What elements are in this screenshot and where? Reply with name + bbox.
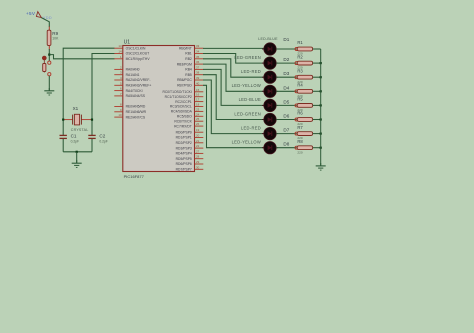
svg-text:RC5/SDO: RC5/SDO (177, 115, 192, 119)
svg-text:10: 10 (118, 113, 122, 117)
wire RB3 to D4 (203, 64, 264, 91)
label R7 (297, 125, 303, 130)
svg-text:LED-YELLOW: LED-YELLOW (232, 140, 261, 145)
svg-text:RC1/T1OSI/CCP2: RC1/T1OSI/CCP2 (165, 95, 192, 99)
svg-text:17: 17 (196, 98, 200, 102)
label D7 (283, 128, 289, 133)
power terminal +5V (36, 12, 41, 18)
svg-text:R6: R6 (297, 111, 303, 116)
wire power terminal to R9 (41, 18, 49, 27)
svg-text:LED-BLUE: LED-BLUE (258, 37, 278, 41)
svg-text:LED-BLUE: LED-BLUE (239, 97, 261, 102)
LED model label LED-BLUE D5 (239, 97, 261, 102)
wire R2 to bus (313, 62, 321, 64)
U1 pin 15 RC0/T1OSO/T1CKI stub (162, 88, 203, 94)
label R2 (297, 54, 303, 59)
junction crystal left (62, 119, 64, 121)
pin-end marker D3/R3 (295, 76, 298, 79)
label R8 (297, 139, 303, 144)
svg-text:38: 38 (196, 71, 200, 75)
U1 pin 10 RE2/AN7/CS stub (114, 113, 146, 119)
junction crystal right (91, 119, 93, 121)
svg-text:R2: R2 (297, 54, 303, 59)
svg-text:RA5/AN4/SS: RA5/AN4/SS (126, 94, 146, 98)
label C1 (71, 134, 77, 139)
junction R9/MCLR/button (48, 54, 50, 56)
svg-text:R3: R3 (297, 68, 303, 73)
junction ground rail (76, 151, 78, 153)
label D6 (283, 114, 289, 119)
net label VDD (43, 16, 52, 20)
svg-text:RA2/AN2/VREF-: RA2/AN2/VREF- (126, 78, 151, 82)
label R5 (297, 97, 303, 102)
svg-text:RC0/T1OSO/T1CKI: RC0/T1OSO/T1CKI (162, 90, 191, 94)
U1 pin 1 MCLR/Vpp/THV stub (114, 55, 150, 61)
svg-text:LED-GREEN: LED-GREEN (234, 55, 261, 60)
U1 pin 25 RC6/TX/CK stub (174, 117, 203, 123)
LED D1 (262, 43, 278, 55)
wire RB1 to D2 (203, 54, 264, 64)
svg-text:RA3/AN3/VREF+: RA3/AN3/VREF+ (126, 84, 152, 88)
value 22pF (99, 140, 107, 144)
pin-end marker D5/R5 (295, 104, 298, 107)
U1 pin 39 RB6/PGC stub (177, 76, 203, 82)
U1 pin 36 RB3/PGM stub (177, 60, 204, 66)
value 220 R5 (297, 108, 302, 112)
svg-text:14: 14 (118, 50, 122, 54)
svg-text:D8: D8 (283, 142, 289, 147)
value 220 R4 (297, 94, 302, 98)
svg-text:RA1/AN1: RA1/AN1 (126, 73, 140, 77)
U1 pin 33 RB0/INT stub (179, 44, 203, 50)
U1 pin 8 RE0/AN5/RD stub (114, 103, 146, 109)
U1 pin 18 RC3/SCK/SCL stub (170, 103, 203, 109)
label D3 (283, 71, 289, 76)
U1 pin 29 RD6/PSP6 stub (176, 160, 204, 166)
op-amp U1 body PIC16F877 (123, 46, 195, 172)
svg-text:RE1/AN6/WR: RE1/AN6/WR (126, 110, 147, 114)
wire C1 to ground rail (62, 139, 64, 152)
U1 pin 20 RD1/PSP1 stub (176, 134, 204, 140)
LED model label LED-GREEN D2 (234, 55, 261, 60)
junction bus row 6 (320, 118, 322, 120)
svg-text:24: 24 (196, 112, 200, 116)
svg-text:19: 19 (196, 128, 200, 132)
wire R9 to button (48, 49, 50, 61)
U1 pin 19 RD0/PSP0 stub (176, 128, 204, 134)
wire MCLR net (49, 55, 114, 59)
svg-text:RB5: RB5 (185, 73, 192, 77)
svg-text:25: 25 (196, 117, 200, 121)
svg-text:RB2: RB2 (185, 57, 192, 61)
svg-text:D4: D4 (283, 85, 289, 90)
svg-text:35: 35 (196, 55, 200, 59)
svg-text:RC7/RX/DT: RC7/RX/DT (174, 124, 192, 128)
svg-text:RB6/PGC: RB6/PGC (177, 78, 192, 82)
wire RB5 to D6 (203, 75, 264, 120)
R9 bottom pin stub (48, 46, 50, 50)
capacitor C1 (60, 135, 67, 138)
svg-text:D3: D3 (283, 71, 289, 76)
wire bus vertical (320, 49, 322, 166)
LED model label LED-RED D7 (241, 125, 261, 130)
value 220 R3 (297, 80, 302, 84)
label D8 (283, 142, 289, 147)
LED D3 (262, 71, 278, 83)
push button actuator (42, 56, 46, 73)
wire ground rail C1-C2 (63, 151, 92, 153)
U1 pin 34 RB1 stub (185, 50, 203, 56)
wire D2 to R2 (276, 62, 296, 64)
U1 pin 38 RB5 stub (185, 71, 203, 77)
resistor R3 (297, 75, 312, 79)
svg-text:RC3/SCK/SCL: RC3/SCK/SCL (170, 105, 192, 109)
svg-text:RE2/AN7/CS: RE2/AN7/CS (126, 115, 146, 119)
svg-text:21: 21 (196, 139, 200, 143)
wire RB7 to D8 (203, 85, 264, 147)
svg-text:33: 33 (196, 44, 200, 48)
junction bus row 7 (320, 133, 322, 135)
svg-text:R5: R5 (297, 97, 303, 102)
label R3 (297, 68, 303, 73)
junction bus row 3 (320, 76, 322, 78)
label X1 (73, 106, 79, 111)
push button terminal bottom (48, 73, 51, 76)
svg-text:18: 18 (196, 103, 200, 107)
svg-text:OSC2/CLKOUT: OSC2/CLKOUT (126, 52, 150, 56)
svg-text:D2: D2 (283, 57, 289, 62)
U1 pin 5 RA3/AN3/VREF+ stub (114, 81, 151, 87)
svg-text:R1: R1 (297, 40, 303, 45)
U1 pin 21 RD2/PSP2 stub (176, 139, 204, 145)
pin-end marker D7/R7 (295, 132, 298, 135)
U1 pin 27 RD4/PSP4 stub (176, 149, 204, 155)
resistor R8 (297, 146, 312, 150)
svg-text:RA0/AN0: RA0/AN0 (126, 68, 140, 72)
resistor R7 (297, 132, 312, 136)
svg-text:+5V: +5V (26, 11, 36, 16)
wire RB0 to D1 (203, 47, 264, 49)
svg-text:D5: D5 (283, 99, 289, 104)
svg-text:R7: R7 (297, 125, 303, 130)
net label +5V (26, 11, 36, 16)
svg-text:RB0/INT: RB0/INT (179, 46, 192, 50)
svg-text:D6: D6 (283, 114, 289, 119)
svg-text:RA4/T0CKI: RA4/T0CKI (126, 89, 143, 93)
wire R1 to bus (313, 48, 321, 50)
resistor R4 (297, 89, 312, 93)
svg-text:10K: 10K (52, 36, 59, 40)
svg-text:RD2/PSP2: RD2/PSP2 (176, 141, 192, 145)
svg-text:MCLR/Vpp/THV: MCLR/Vpp/THV (126, 57, 151, 61)
svg-text:0.2pF: 0.2pF (71, 140, 79, 144)
value 22pF (71, 140, 79, 144)
label D4 (283, 85, 289, 90)
svg-text:LED-GREEN: LED-GREEN (234, 111, 261, 116)
U1 pin 24 RC5/SDO stub (177, 112, 203, 118)
LED model label LED-YELLOW D4 (232, 83, 261, 88)
svg-text:37: 37 (196, 65, 200, 69)
svg-text:RB4: RB4 (185, 68, 192, 72)
svg-text:OSC1/CLKIN: OSC1/CLKIN (126, 46, 146, 50)
wire D6 to R6 (276, 119, 296, 121)
ground under crystal (72, 160, 82, 167)
wire RB4 to D5 (203, 69, 264, 105)
U1 pin 13 OSC1/CLKIN stub (114, 44, 146, 50)
svg-text:CRYSTAL: CRYSTAL (71, 128, 89, 132)
label U1 (124, 39, 131, 45)
svg-text:RB1: RB1 (185, 52, 192, 56)
svg-text:27: 27 (196, 149, 200, 153)
push button terminal top (48, 61, 51, 64)
LED D8 (262, 142, 278, 154)
svg-text:C1: C1 (71, 134, 77, 139)
U1 pin 23 RC4/SDI/SDA stub (171, 107, 204, 113)
wire RB2 to D3 (203, 59, 264, 77)
wire R6 to bus (313, 119, 321, 121)
svg-text:0.2pF: 0.2pF (99, 140, 107, 144)
svg-text:RD0/PSP0: RD0/PSP0 (176, 130, 192, 134)
svg-text:13: 13 (118, 44, 122, 48)
svg-text:20: 20 (196, 134, 200, 138)
pin-end marker D4/R4 (295, 90, 298, 93)
svg-text:RD6/PSP6: RD6/PSP6 (176, 162, 192, 166)
capacitor C2 (88, 135, 95, 138)
ground under bus (316, 163, 326, 170)
value 220 R1 (297, 52, 302, 56)
svg-text:R4: R4 (297, 83, 303, 88)
U1 pin 22 RD3/PSP3 stub (176, 144, 204, 150)
svg-text:U1: U1 (124, 39, 131, 45)
svg-text:26: 26 (196, 122, 200, 126)
label R6 (297, 111, 303, 116)
svg-text:RD3/PSP3: RD3/PSP3 (176, 146, 192, 150)
LED D5 (262, 99, 278, 111)
U1 pin 4 RA2/AN2/VREF- stub (114, 76, 150, 82)
svg-text:40: 40 (196, 81, 200, 85)
svg-text:RC2/CCP1: RC2/CCP1 (175, 100, 192, 104)
U1 pin 30 RD7/PSP7 stub (176, 165, 204, 171)
value 10K (52, 36, 59, 40)
pin-end marker D8/R8 (295, 146, 298, 149)
wire OSC2 net (92, 54, 115, 136)
svg-text:23: 23 (196, 107, 200, 111)
value PIC16F877 (124, 174, 145, 179)
svg-text:RC6/TX/CK: RC6/TX/CK (174, 119, 192, 123)
wire rail to ground (76, 152, 78, 163)
wire R7 to bus (313, 133, 321, 135)
crystal X1 (63, 114, 92, 125)
U1 pin 7 RA5/AN4/SS stub (114, 92, 145, 98)
R9 top pin stub (48, 27, 50, 31)
svg-text:34: 34 (196, 50, 200, 54)
svg-text:PIC16F877: PIC16F877 (124, 174, 145, 179)
LED D2 (262, 57, 278, 69)
svg-text:RD1/PSP1: RD1/PSP1 (176, 136, 192, 140)
svg-text:RD5/PSP5: RD5/PSP5 (176, 157, 192, 161)
svg-text:36: 36 (196, 60, 200, 64)
pin-end marker D6/R6 (295, 118, 298, 121)
LED model label LED-GREEN D6 (234, 111, 261, 116)
label D5 (283, 99, 289, 104)
wire D3 to R3 (276, 76, 296, 78)
resistor R6 (297, 118, 312, 122)
svg-text:30: 30 (196, 165, 200, 169)
svg-text:C2: C2 (99, 134, 105, 139)
svg-text:39: 39 (196, 76, 200, 80)
svg-text:X1: X1 (73, 106, 79, 111)
svg-text:LED-RED: LED-RED (241, 69, 261, 74)
label R1 (297, 40, 303, 45)
LED D7 (262, 127, 278, 139)
LED D4 (262, 85, 278, 97)
wire D4 to R4 (276, 90, 296, 92)
wire RB6 to D7 (203, 80, 264, 134)
ground under button (44, 88, 54, 95)
svg-text:RD4/PSP4: RD4/PSP4 (176, 152, 192, 156)
LED model label LED-BLUE D1 (258, 37, 278, 41)
wire C2 to ground rail (91, 139, 93, 152)
wire R4 to bus (313, 90, 321, 92)
U1 pin 2 RA0/AN0 stub (114, 65, 139, 71)
U1 pin 26 RC7/RX/DT stub (174, 122, 203, 128)
LED D6 (262, 113, 278, 125)
svg-text:D1: D1 (283, 37, 289, 42)
U1 pin 40 RB7/PGD stub (177, 81, 203, 87)
value CRYSTAL (71, 128, 89, 132)
U1 pin 9 RE1/AN6/WR stub (114, 108, 146, 114)
junction bus row 5 (320, 104, 322, 106)
U1 pin 17 RC2/CCP1 stub (175, 98, 203, 104)
svg-text:RB7/PGD: RB7/PGD (177, 84, 192, 88)
wire D5 to R5 (276, 104, 296, 106)
U1 pin 37 RB4 stub (185, 65, 203, 71)
wire R8 to bus (313, 147, 321, 149)
wire button to ground (48, 76, 50, 91)
resistor R9 (47, 30, 51, 45)
push button body (43, 64, 46, 72)
value 220 R6 (297, 122, 302, 126)
svg-text:D7: D7 (283, 128, 289, 133)
U1 pin 3 RA1/AN1 stub (114, 71, 139, 77)
svg-text:RC4/SDI/SDA: RC4/SDI/SDA (171, 110, 193, 114)
label D2 (283, 57, 289, 62)
label D1 (283, 37, 289, 42)
wire D1 to R1 (276, 48, 296, 50)
svg-text:RB3/PGM: RB3/PGM (177, 62, 192, 66)
pin-end marker D2/R2 (295, 62, 298, 65)
LED model label LED-RED D3 (241, 69, 261, 74)
U1 pin 35 RB2 stub (185, 55, 203, 61)
U1 pin 6 RA4/T0CKI stub (114, 87, 142, 93)
wire D8 to R8 (276, 147, 296, 149)
svg-text:28: 28 (196, 155, 200, 159)
label C2 (99, 134, 105, 139)
value 220 R2 (297, 66, 302, 70)
svg-text:LED-RED: LED-RED (241, 125, 261, 130)
svg-text:R8: R8 (297, 139, 303, 144)
svg-text:16: 16 (196, 93, 200, 97)
resistor R2 (297, 61, 312, 65)
value 220 R8 (297, 150, 302, 154)
U1 pin 14 OSC2/CLKOUT stub (114, 50, 149, 56)
svg-text:RD7/PSP7: RD7/PSP7 (176, 168, 192, 172)
wire D7 to R7 (276, 133, 296, 135)
svg-text:22: 22 (196, 144, 200, 148)
value 220 R7 (297, 136, 302, 140)
junction bus row 4 (320, 90, 322, 92)
junction bus row 2 (320, 62, 322, 64)
label R9 (52, 31, 58, 36)
svg-text:RE0/AN5/RD: RE0/AN5/RD (126, 105, 146, 109)
pin-end marker D1/R1 (295, 48, 298, 51)
wire OSC1 net (63, 48, 114, 135)
wire R3 to bus (313, 76, 321, 78)
U1 pin 28 RD5/PSP5 stub (176, 155, 204, 161)
wire R5 to bus (313, 104, 321, 106)
label R4 (297, 83, 303, 88)
U1 pin 16 RC1/T1OSI/CCP2 stub (165, 93, 204, 99)
LED model label LED-YELLOW D8 (232, 140, 261, 145)
resistor R1 (297, 47, 312, 51)
svg-text:15: 15 (196, 88, 200, 92)
svg-text:LED-YELLOW: LED-YELLOW (232, 83, 261, 88)
junction bus row 8 (320, 147, 322, 149)
svg-text:29: 29 (196, 160, 200, 164)
resistor R5 (297, 104, 312, 108)
svg-text:220: 220 (297, 150, 302, 154)
